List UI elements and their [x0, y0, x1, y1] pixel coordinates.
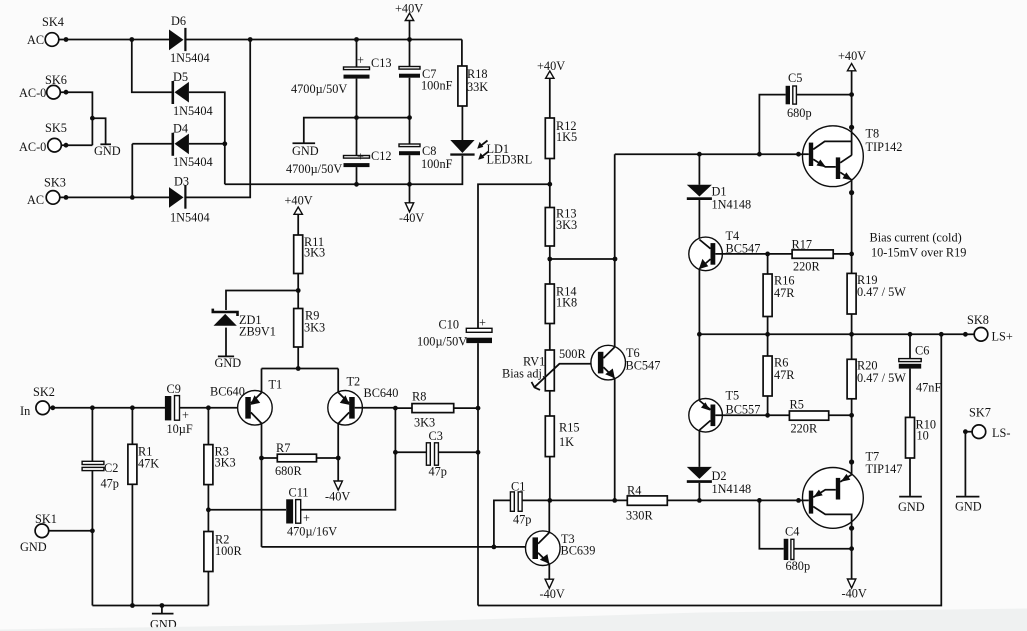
resistor R10 — [906, 417, 915, 458]
node D6 out — [248, 37, 253, 42]
wire T4 emitter to output rail — [698, 269, 700, 335]
svg-text:680R: 680R — [275, 464, 302, 478]
node R5 right — [849, 413, 854, 418]
svg-text:3K3: 3K3 — [556, 218, 577, 232]
svg-text:D2: D2 — [712, 469, 727, 483]
svg-text:R15: R15 — [559, 421, 580, 435]
svg-text:AC-0: AC-0 — [19, 140, 46, 154]
node R12/R13 — [547, 182, 552, 187]
node T7 base — [796, 498, 801, 503]
svg-text:GND: GND — [898, 500, 925, 514]
svg-text:C3: C3 — [429, 429, 443, 443]
ground GND (ZD1) — [218, 355, 234, 357]
zener ZD1 (ZB9V1) — [213, 309, 238, 316]
svg-text:GND: GND — [94, 144, 121, 158]
svg-text:1N5404: 1N5404 — [173, 155, 213, 169]
wire to ZD1 — [226, 291, 298, 311]
svg-text:R7: R7 — [276, 441, 290, 455]
power -40V (T3) — [545, 579, 553, 588]
wire R3 to C11 — [208, 509, 286, 511]
svg-text:1N5404: 1N5404 — [170, 211, 210, 225]
node R8/C10 column — [476, 406, 481, 411]
svg-text:+: + — [357, 150, 364, 164]
wire C2 column — [91, 408, 93, 461]
node SK6/SK5 junction — [90, 116, 95, 121]
transistor T5 (BC557) — [689, 399, 723, 433]
wire junction to GND symbol — [92, 118, 105, 143]
wire T2 emitter up — [337, 369, 339, 393]
svg-text:47nF: 47nF — [916, 381, 941, 395]
terminal SK2 — [36, 401, 50, 415]
node D2 bottom — [697, 498, 702, 503]
svg-text:C6: C6 — [915, 344, 929, 358]
svg-text:GND: GND — [215, 356, 242, 370]
terminal SK5 — [48, 138, 62, 152]
led LD1 — [450, 140, 474, 153]
node R16/R6 rail — [765, 332, 770, 337]
ground GND (R10) — [899, 496, 922, 498]
node input/C2 — [90, 405, 95, 410]
svg-text:C8: C8 — [422, 144, 436, 158]
node output rail R19/R20 — [849, 332, 854, 337]
resistor R14 — [545, 284, 554, 324]
wire T7 collector down — [851, 528, 853, 579]
svg-text:-40V: -40V — [399, 211, 424, 225]
wire R4 row — [522, 499, 803, 501]
terminal SK7 — [963, 429, 968, 434]
node R3/R2/C11 — [206, 507, 211, 512]
svg-text:4700µ/50V: 4700µ/50V — [286, 162, 342, 176]
potentiometer RV1 (500R) — [545, 350, 554, 391]
resistor R20 — [847, 359, 856, 399]
wire SK5 to junction — [61, 144, 92, 146]
wire C11 to R8 column — [301, 408, 396, 510]
svg-text:680p: 680p — [786, 559, 811, 573]
node -40V rail C12 — [354, 182, 359, 187]
svg-text:-40V: -40V — [325, 490, 350, 504]
node base/R3 — [206, 405, 211, 410]
transistor T1 (BC640) — [238, 391, 273, 426]
wire SK3 to D3 — [60, 196, 169, 198]
svg-text:C5: C5 — [788, 71, 802, 85]
diode D3 — [169, 187, 184, 208]
transistor T3 (BC639) — [526, 531, 561, 566]
svg-text:47R: 47R — [774, 368, 795, 382]
svg-text:47p: 47p — [101, 477, 119, 491]
ground GND (supply) — [293, 142, 316, 144]
wire R12/R13 node to C10 column — [478, 184, 550, 328]
svg-text:SK6: SK6 — [45, 73, 67, 87]
svg-text:AC: AC — [27, 193, 44, 207]
svg-text:R18: R18 — [467, 67, 488, 81]
svg-text:R8: R8 — [412, 390, 426, 404]
resistor R9 — [294, 309, 303, 348]
diode D2 — [698, 430, 700, 467]
resistor R12 — [545, 118, 554, 159]
node C3 left column — [393, 450, 398, 455]
diode D4 — [172, 133, 175, 156]
svg-text:3K3: 3K3 — [304, 321, 325, 335]
transistor T6 (BC547) — [591, 345, 626, 380]
wire emitter rail — [262, 368, 339, 370]
resistor R16 — [767, 254, 769, 274]
svg-text:D3: D3 — [174, 175, 189, 189]
capacitor C12 — [356, 118, 358, 156]
node input/R1 — [130, 405, 135, 410]
wire T4 base — [715, 253, 767, 255]
svg-text:+40V: +40V — [285, 194, 313, 208]
svg-text:GND: GND — [955, 500, 982, 514]
svg-text:ZB9V1: ZB9V1 — [239, 325, 276, 339]
svg-text:10: 10 — [917, 429, 929, 443]
svg-text:In: In — [20, 404, 30, 418]
wire T5 base — [715, 414, 767, 416]
svg-text:C2: C2 — [104, 461, 118, 475]
svg-text:TIP142: TIP142 — [866, 140, 903, 154]
node T1 collector / R7 — [259, 456, 264, 461]
capacitor C8 — [409, 118, 411, 144]
svg-text:3K3: 3K3 — [304, 246, 325, 260]
svg-text:C4: C4 — [785, 525, 799, 539]
svg-text:GND: GND — [292, 144, 319, 158]
wire T6 emitter down — [614, 378, 616, 500]
svg-text:BC557: BC557 — [726, 402, 761, 416]
svg-text:R5: R5 — [790, 398, 804, 412]
svg-text:+: + — [479, 316, 486, 330]
node mid rail C13 — [354, 115, 359, 120]
resistor R19 — [847, 273, 856, 314]
terminal SK4 — [45, 33, 59, 47]
wire T3 collector up — [548, 500, 550, 533]
svg-text:220R: 220R — [793, 260, 820, 274]
wire D4 anode — [189, 143, 225, 145]
capacitor C11 — [286, 499, 293, 523]
wire SK6 to GND column — [60, 92, 92, 145]
svg-text:1K: 1K — [559, 435, 574, 449]
resistor R7 — [262, 457, 278, 459]
power -40V (supply) — [409, 184, 411, 203]
svg-text:0.47 / 5W: 0.47 / 5W — [857, 371, 906, 385]
svg-text:33K: 33K — [467, 80, 488, 94]
wire bottom rail (right) — [478, 334, 941, 605]
power -40V (T7) — [847, 579, 855, 588]
wire D4 cathode column — [131, 144, 133, 198]
node R9 bottom — [296, 366, 301, 371]
wire T1 emitter up — [261, 369, 263, 393]
svg-text:LED3RL: LED3RL — [487, 153, 533, 167]
svg-text:+: + — [303, 511, 310, 525]
ground GND (SK5/SK6) — [100, 143, 111, 145]
svg-text:TIP147: TIP147 — [866, 462, 903, 476]
node T2 collector / R7 — [336, 456, 341, 461]
svg-text:1N4148: 1N4148 — [712, 198, 752, 212]
svg-text:220R: 220R — [791, 422, 818, 436]
svg-text:330R: 330R — [626, 509, 653, 523]
svg-text:100µ/50V: 100µ/50V — [417, 335, 467, 349]
svg-text:C9: C9 — [167, 382, 181, 396]
svg-text:BC547: BC547 — [626, 359, 661, 373]
node SK2 stub — [50, 405, 55, 410]
node R17 right — [849, 252, 854, 257]
node AC1 junction — [129, 37, 134, 42]
ground GND (bottom left) — [161, 606, 163, 614]
node D4 anode — [222, 141, 227, 146]
resistor R4 — [627, 496, 667, 505]
svg-text:C12: C12 — [371, 149, 392, 163]
terminal SK8 — [963, 332, 968, 337]
wire C9 to T1 base — [180, 407, 246, 409]
svg-text:SK2: SK2 — [33, 385, 55, 399]
svg-text:LS+: LS+ — [992, 330, 1013, 344]
svg-text:47R: 47R — [774, 286, 795, 300]
capacitor C3 — [426, 443, 430, 465]
svg-text:LS-: LS- — [992, 426, 1010, 440]
svg-text:SK8: SK8 — [967, 313, 989, 327]
svg-text:SK1: SK1 — [35, 512, 57, 526]
wire SK1 to C2 column — [49, 530, 93, 532]
node C5 right — [849, 92, 854, 97]
svg-text:47p: 47p — [513, 513, 531, 527]
svg-text:100R: 100R — [215, 544, 242, 558]
node T6 emitter bottom — [612, 498, 617, 503]
svg-text:+: + — [357, 53, 364, 67]
node R11/R9/ZD1 — [296, 288, 301, 293]
terminal SK3 — [46, 191, 60, 205]
svg-text:1N5404: 1N5404 — [170, 51, 210, 65]
wire T2 collector down — [337, 423, 339, 481]
diode D5 — [172, 81, 175, 104]
capacitor C2 — [82, 461, 104, 464]
svg-text:C11: C11 — [289, 486, 309, 500]
resistor R11 — [294, 235, 303, 274]
node T2 base / R8 — [393, 406, 398, 411]
node -40V rail C8 — [407, 182, 412, 187]
capacitor C9 — [165, 396, 171, 420]
capacitor C1 — [494, 500, 511, 547]
node T4 base / R16 / R17 — [765, 252, 770, 257]
svg-text:GND: GND — [20, 540, 47, 554]
node SK5 stub — [64, 143, 69, 148]
node R13/R14 — [547, 257, 552, 262]
capacitor C4 — [759, 500, 783, 548]
svg-text:1K8: 1K8 — [556, 296, 577, 310]
node T6 collector column — [613, 257, 618, 262]
wire T2 base — [355, 407, 396, 409]
wire T8 emitter down — [851, 193, 853, 274]
svg-text:47K: 47K — [138, 457, 159, 471]
resistor R6 — [767, 334, 769, 356]
wire feedback line — [262, 546, 527, 548]
wire SK4 to D6 anode — [59, 39, 169, 41]
wire C3 row — [395, 451, 478, 453]
wire mid GND rail — [304, 118, 410, 143]
capacitor C7 — [399, 67, 420, 70]
wire D4 cathode stub — [132, 143, 171, 145]
svg-text:SK5: SK5 — [45, 121, 67, 135]
resistor R18 — [461, 40, 463, 67]
svg-text:47p: 47p — [429, 465, 447, 479]
svg-text:500R: 500R — [559, 347, 586, 361]
node SK4 stub — [64, 37, 69, 42]
node AC2 junction — [130, 195, 135, 200]
node T5 emitter rail — [697, 332, 702, 337]
svg-text:BC640: BC640 — [210, 385, 245, 399]
wire T5 emitter to output rail — [698, 334, 700, 400]
svg-text:680p: 680p — [787, 106, 812, 120]
wire R13 node to T6 column — [550, 258, 615, 260]
node C5 branch — [757, 152, 762, 157]
node T5 base / R6 / R5 — [765, 413, 770, 418]
transistor T2 (BC640) — [328, 391, 363, 426]
svg-text:BC640: BC640 — [364, 386, 399, 400]
capacitor C13 — [356, 40, 358, 68]
svg-text:470µ/16V: 470µ/16V — [287, 525, 337, 539]
svg-text:+: + — [182, 408, 189, 422]
node SK3 stub — [64, 195, 69, 200]
svg-text:C10: C10 — [439, 318, 460, 332]
page shadow — [0, 609, 1027, 631]
resistor R2 — [204, 532, 213, 572]
svg-text:C1: C1 — [511, 480, 525, 494]
resistor R13 — [545, 208, 554, 247]
node rail GND — [160, 603, 165, 608]
node rail R1 — [130, 603, 135, 608]
node T3 collector — [547, 498, 552, 503]
capacitor C5 — [759, 95, 785, 155]
wire input row — [50, 407, 166, 409]
svg-text:C13: C13 — [371, 56, 392, 70]
wire T1 collector down — [261, 423, 263, 547]
diode D1 — [698, 154, 700, 185]
svg-text:-40V: -40V — [540, 587, 565, 601]
svg-text:100nF: 100nF — [421, 79, 453, 93]
svg-text:T5: T5 — [726, 389, 740, 403]
svg-text:D6: D6 — [171, 14, 186, 28]
wire VAS rail (T8 base row) — [615, 153, 803, 155]
node D1 top — [697, 152, 702, 157]
wire D6 cathode to +40V rail — [187, 39, 462, 41]
node rail at +40V arrow — [407, 37, 412, 42]
capacitor C10 — [466, 328, 492, 332]
ground GND (SK7) — [956, 496, 979, 498]
node SK6 stub — [64, 90, 69, 95]
svg-text:T2: T2 — [347, 375, 361, 389]
power -40V (T2) — [334, 481, 342, 490]
wire SK7 to GND — [964, 432, 966, 496]
wire D3 cathode up to +40V rail — [187, 40, 251, 198]
svg-text:0.47 / 5W: 0.47 / 5W — [857, 285, 906, 299]
svg-text:100nF: 100nF — [421, 157, 453, 171]
diode D6 — [169, 30, 184, 51]
wire T6 collector up — [614, 154, 616, 347]
svg-text:AC-0: AC-0 — [19, 86, 46, 100]
svg-text:SK7: SK7 — [969, 406, 991, 420]
resistor R8 — [412, 404, 454, 413]
resistor R15 — [545, 416, 554, 457]
svg-text:T1: T1 — [269, 378, 283, 392]
svg-text:T8: T8 — [866, 127, 880, 141]
svg-text:D4: D4 — [173, 122, 188, 136]
node C4 branch — [757, 498, 762, 503]
svg-text:1K5: 1K5 — [556, 130, 577, 144]
svg-text:AC: AC — [27, 33, 44, 47]
node rail at C13 — [354, 37, 359, 42]
svg-text:D5: D5 — [173, 70, 188, 84]
resistor R5 — [768, 414, 790, 416]
svg-text:Bias adj.: Bias adj. — [502, 367, 545, 381]
wire output rail — [699, 333, 967, 335]
transistor T4 (BC547) — [689, 237, 723, 271]
svg-text:10-15mV over R19: 10-15mV over R19 — [871, 246, 966, 260]
node rail to bottom — [939, 332, 944, 337]
svg-text:3K3: 3K3 — [215, 456, 236, 470]
terminal SK1 — [35, 524, 49, 538]
svg-text:1N4148: 1N4148 — [712, 482, 752, 496]
transistor T7 (TIP147) — [803, 468, 864, 529]
transistor T8 (TIP142) — [803, 126, 864, 187]
wire D6 node down to D5 cathode — [132, 40, 172, 93]
svg-text:R4: R4 — [627, 484, 641, 498]
node T7 emitter top — [849, 459, 854, 464]
wire T3 emitter down — [548, 564, 550, 580]
wire bottom ground rail (left) — [92, 605, 208, 607]
svg-text:10µF: 10µF — [167, 422, 193, 436]
svg-text:R17: R17 — [792, 238, 813, 252]
svg-text:1N5404: 1N5404 — [173, 104, 213, 118]
svg-text:-40V: -40V — [842, 587, 867, 601]
wire -40V rail — [225, 156, 463, 185]
wire D5 anode to negative column — [189, 92, 225, 184]
node SK1 junction — [90, 528, 95, 533]
capacitor C6 — [908, 332, 913, 337]
node C3 right column — [476, 450, 481, 455]
node C1/feedback — [492, 545, 497, 550]
svg-text:+40V: +40V — [838, 49, 866, 63]
svg-text:SK3: SK3 — [44, 176, 66, 190]
node mid rail C7 — [407, 115, 412, 120]
svg-text:3K3: 3K3 — [414, 416, 435, 430]
resistor R3 — [207, 408, 209, 445]
svg-text:Bias current (cold): Bias current (cold) — [870, 231, 962, 245]
terminal SK6 — [47, 85, 61, 99]
svg-text:D1: D1 — [712, 185, 727, 199]
svg-text:BC639: BC639 — [561, 544, 596, 558]
svg-text:4700µ/50V: 4700µ/50V — [291, 82, 347, 96]
resistor R1 — [131, 408, 133, 445]
svg-text:+40V: +40V — [537, 59, 565, 73]
node T8 base — [796, 152, 801, 157]
resistor R17 — [768, 253, 793, 255]
svg-text:SK4: SK4 — [42, 15, 64, 29]
